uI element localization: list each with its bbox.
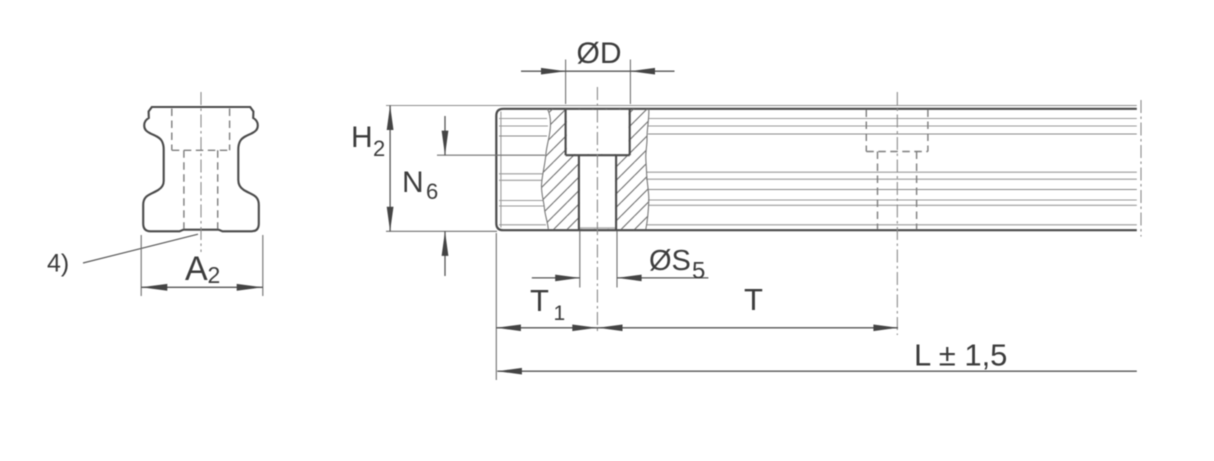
centerline hole 2 [896,92,898,335]
hidden hole 2: counterbore [866,110,928,230]
side view: outer contour with left end [496,109,1137,230]
dimension OD [565,60,567,105]
dimension A2 [140,235,142,296]
svg-text:T: T [530,283,549,318]
section break line left [541,109,550,229]
through hole walls [578,155,580,230]
centerline (left view) [200,92,202,252]
hidden through hole (left view) [183,150,185,228]
section break line right [646,109,649,229]
side view: top thin edge line [386,105,1137,107]
far-side bottom edge seen through hole [580,227,615,229]
counterbore walls [565,109,567,155]
rail cross-section profile (left view) [143,107,259,231]
hatched local section [541,109,648,229]
counterbore step [566,154,630,156]
svg-text:ØD: ØD [577,37,622,70]
svg-text:1: 1 [554,302,566,325]
svg-text:L ± 1,5: L ± 1,5 [914,338,1007,373]
svg-text:4): 4) [47,250,69,278]
extension line left edge [495,233,497,380]
counterbore opening (white) [567,110,629,154]
svg-text:N: N [402,166,424,199]
svg-text:2: 2 [373,136,385,161]
svg-text:H: H [351,121,373,154]
end face groove lines [499,119,548,225]
leader line 4) [83,234,198,263]
left end inner ring [500,112,502,228]
dimension OS5 [579,231,581,288]
centerline hole 1 [596,87,598,332]
svg-text:T: T [744,282,763,317]
dimension H2 [386,230,497,232]
hidden counterbore (left view) [171,109,173,151]
through hole opening (white) [580,155,615,229]
dimension N6 [437,154,545,156]
svg-text:ØS: ØS [649,245,691,277]
svg-text:6: 6 [426,179,438,204]
symmetry line right end [1140,100,1142,237]
svg-text:5: 5 [692,258,705,285]
dimension L [497,370,1137,372]
svg-text:2: 2 [208,262,221,288]
rail body groove lines [646,119,1137,225]
dimension T1 and T [496,327,898,329]
svg-text:A: A [185,250,208,288]
